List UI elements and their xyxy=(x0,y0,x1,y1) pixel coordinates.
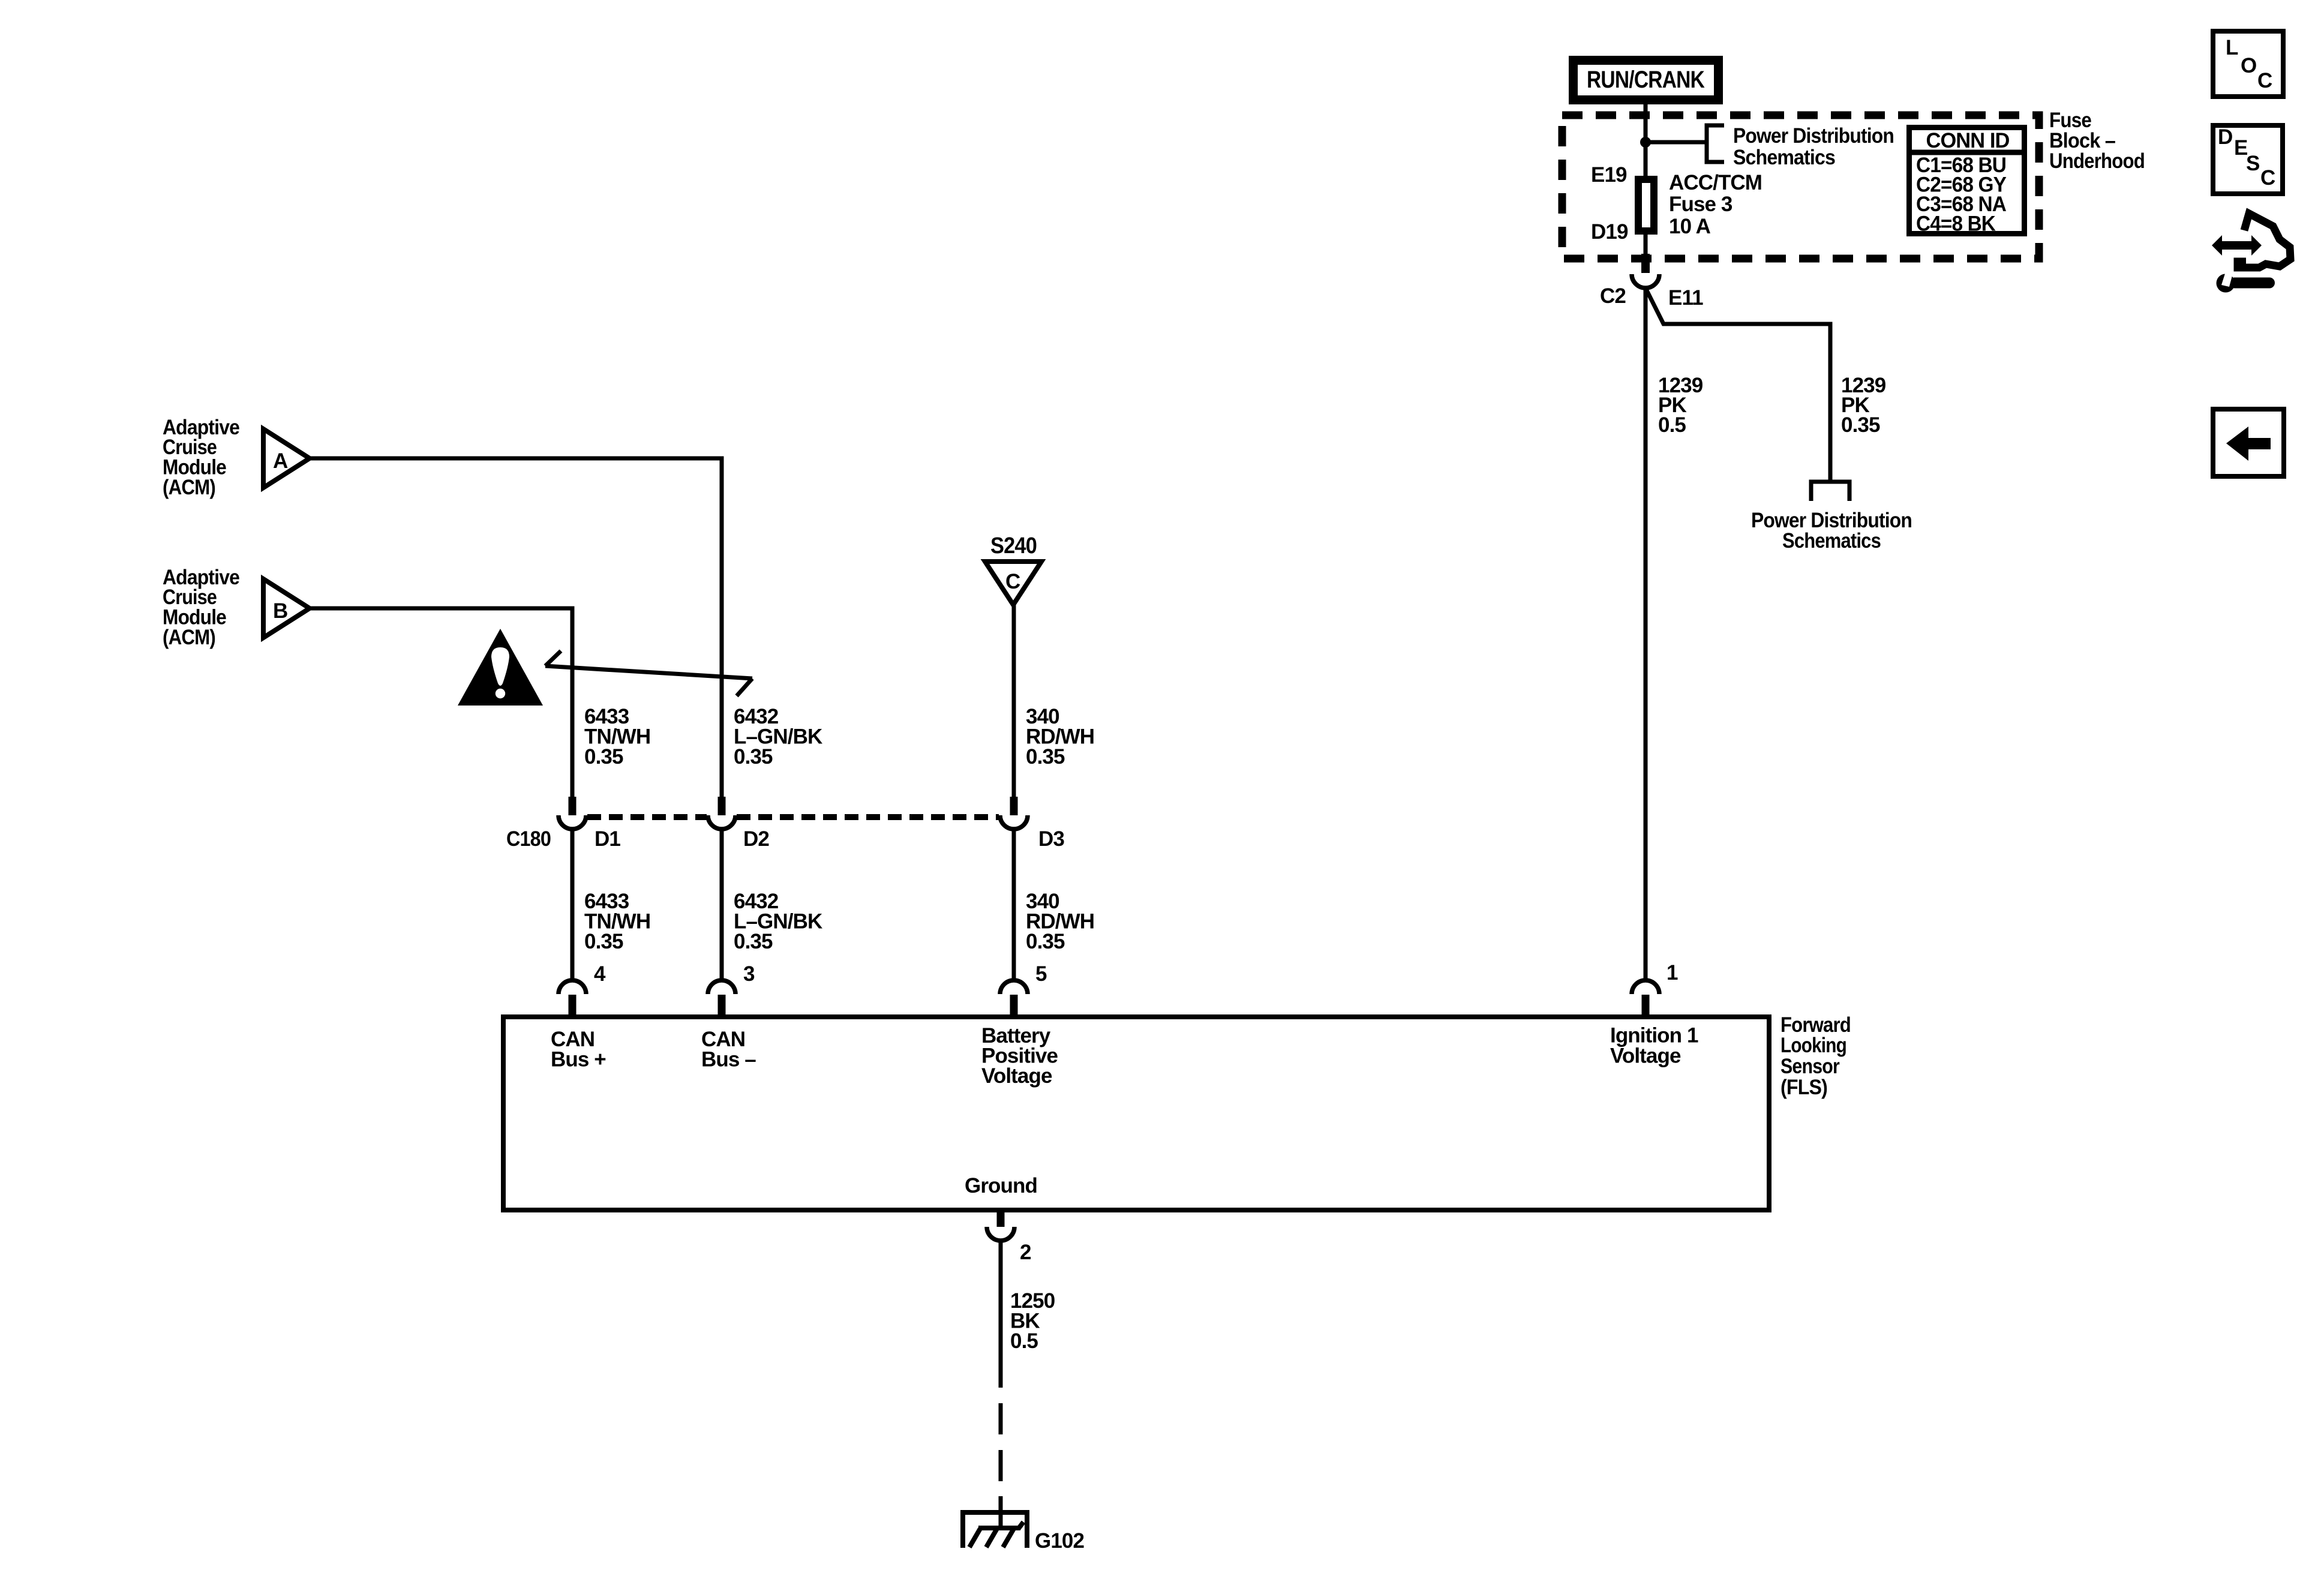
svg-text:D3: D3 xyxy=(1038,827,1064,851)
svg-text:S240: S240 xyxy=(990,533,1037,559)
svg-text:0.35: 0.35 xyxy=(1026,745,1065,769)
wire E11 branch (circuit 1239 PK 0.35) xyxy=(1646,288,1830,482)
node junction dot xyxy=(1640,137,1651,148)
connector C180 pin D1 xyxy=(559,797,586,829)
label circuit 6432 L-GN/BK 0.35 (below C180) xyxy=(734,890,822,953)
connector C180 pin D3 xyxy=(1000,797,1028,829)
icon check-vehicle (car outline with arrow and wrench) xyxy=(2212,214,2290,293)
module ACM B (Adaptive Cruise Module connector B triangle) xyxy=(263,579,310,638)
svg-text:1: 1 xyxy=(1667,961,1678,984)
wire C2 to pin 1 (circuit 1239 PK 0.5) xyxy=(1644,288,1648,980)
pin 4 connector at FLS xyxy=(559,962,606,1017)
svg-text:G102: G102 xyxy=(1035,1529,1084,1553)
svg-text:D1: D1 xyxy=(594,827,620,851)
pin 1 connector at FLS xyxy=(1632,961,1678,1017)
wire fuse to C2 xyxy=(1644,231,1648,255)
svg-text:C2: C2 xyxy=(1600,284,1626,308)
splice S240 triangle xyxy=(985,533,1041,605)
label ACM B text xyxy=(163,566,239,649)
svg-text:0.5: 0.5 xyxy=(1010,1329,1038,1353)
svg-text:Power Distribution: Power Distribution xyxy=(1733,124,1894,148)
svg-text:Bus –: Bus – xyxy=(701,1048,756,1071)
svg-text:CONN ID: CONN ID xyxy=(1926,129,2010,152)
CONN ID table xyxy=(1906,128,2027,236)
svg-text:Underhood: Underhood xyxy=(2049,149,2145,173)
wire B (circuit 6433 from ACM B to D1) xyxy=(310,608,572,798)
svg-text:C: C xyxy=(2257,69,2272,92)
svg-text:(ACM): (ACM) xyxy=(163,476,215,499)
svg-text:Sensor: Sensor xyxy=(1780,1055,1840,1078)
svg-text:0.35: 0.35 xyxy=(584,930,623,953)
pin 5 connector at FLS xyxy=(1000,962,1047,1017)
svg-text:C4=8 BK: C4=8 BK xyxy=(1916,212,1996,236)
svg-text:10 A: 10 A xyxy=(1669,215,1711,238)
label circuit 6432 L-GN/BK 0.35 (above C180) xyxy=(734,705,822,769)
svg-text:Schematics: Schematics xyxy=(1733,146,1835,169)
icon back-arrow box xyxy=(2213,409,2284,476)
label Forward Looking Sensor (FLS) xyxy=(1780,1013,1851,1099)
connector C2 (fuse block output) xyxy=(1600,254,1703,310)
svg-text:A: A xyxy=(273,449,288,473)
label CAN Bus - xyxy=(701,1028,756,1071)
wire D2 to pin 3 xyxy=(720,829,724,980)
svg-text:C: C xyxy=(1005,570,1020,593)
label ACC/TCM Fuse 3 10 A xyxy=(1669,171,1762,238)
FLS box (Forward Looking Sensor) xyxy=(503,1017,1769,1210)
svg-text:RUN/CRANK: RUN/CRANK xyxy=(1587,67,1705,93)
svg-text:0.35: 0.35 xyxy=(1841,413,1880,437)
svg-text:0.35: 0.35 xyxy=(1026,930,1065,953)
label Battery Positive Voltage xyxy=(981,1024,1058,1088)
svg-text:L: L xyxy=(2226,36,2238,59)
svg-text:O: O xyxy=(2241,54,2256,77)
fuse block underhood dashed box xyxy=(1562,115,2039,259)
label Ignition 1 Voltage xyxy=(1610,1024,1698,1068)
icon DESC box xyxy=(2213,125,2283,194)
bracket to Power Distribution Schematics (right) xyxy=(1811,482,1849,501)
label Fuse Block - Underhood xyxy=(2049,109,2145,173)
pin 3 connector at FLS xyxy=(708,962,755,1017)
svg-text:2: 2 xyxy=(1020,1241,1031,1264)
label Power Distribution Schematics (top) xyxy=(1733,124,1894,169)
svg-text:0.35: 0.35 xyxy=(584,745,623,769)
label circuit 340 RD/WH 0.35 (above C180) xyxy=(1026,705,1094,769)
svg-text:Voltage: Voltage xyxy=(981,1064,1052,1088)
svg-text:0.5: 0.5 xyxy=(1658,413,1686,437)
bracket to Power Distribution Schematics (top) xyxy=(1707,125,1724,162)
wire D1 to pin 4 xyxy=(571,829,575,980)
svg-text:C: C xyxy=(2260,166,2275,190)
label circuit 1250 BK 0.5 xyxy=(1010,1289,1055,1353)
svg-text:Schematics: Schematics xyxy=(1782,529,1881,553)
fuse ACC/TCM Fuse 3 10 A xyxy=(1638,179,1654,231)
svg-text:C180: C180 xyxy=(506,827,551,851)
svg-text:ACC/TCM: ACC/TCM xyxy=(1669,171,1762,194)
svg-text:D: D xyxy=(2218,125,2232,149)
svg-text:Looking: Looking xyxy=(1780,1034,1846,1057)
svg-text:Voltage: Voltage xyxy=(1610,1044,1681,1068)
wire RUN/CRANK into fuse block xyxy=(1644,104,1648,177)
svg-text:B: B xyxy=(273,599,287,623)
label circuit 340 RD/WH 0.35 (below C180) xyxy=(1026,890,1094,953)
dashed connector line D2-D3 xyxy=(737,814,999,820)
dashed wire segment to G102 xyxy=(999,1388,1003,1496)
module ACM A (Adaptive Cruise Module connector A triangle) xyxy=(263,429,310,488)
svg-text:0.35: 0.35 xyxy=(734,930,773,953)
warning symbol (black triangle with exclamation) xyxy=(458,629,543,706)
dashed connector line D1-D2 xyxy=(587,814,707,820)
svg-text:0.35: 0.35 xyxy=(734,745,773,769)
svg-text:S: S xyxy=(2246,152,2259,175)
wire junction to power distribution bracket xyxy=(1646,140,1707,145)
svg-text:D2: D2 xyxy=(743,827,769,851)
icon LOC box xyxy=(2213,31,2283,97)
pin 2 connector below FLS xyxy=(987,1211,1031,1264)
label circuit 6433 TN/WH 0.35 (above C180) xyxy=(584,705,650,769)
label circuit 6433 TN/WH 0.35 (below C180) xyxy=(584,890,650,953)
wire from S240 (circuit 340) to D3 xyxy=(1012,605,1016,798)
wire pin 2 to ground (circuit 1250) xyxy=(999,1241,1003,1388)
RUN/CRANK power feed box xyxy=(1574,61,1719,100)
svg-text:Bus +: Bus + xyxy=(551,1048,606,1071)
leader line from warning symbol to wires xyxy=(545,651,752,696)
svg-text:E11: E11 xyxy=(1668,286,1703,310)
label Power Distribution Schematics (bottom right) xyxy=(1751,509,1912,553)
svg-text:5: 5 xyxy=(1035,962,1047,986)
label ACM A text xyxy=(163,416,239,499)
svg-text:(ACM): (ACM) xyxy=(163,626,215,649)
wire into ground symbol xyxy=(999,1496,1003,1528)
svg-text:4: 4 xyxy=(594,962,606,986)
wire A (circuit 6432 from ACM A to D2) xyxy=(310,458,722,798)
svg-text:Fuse 3: Fuse 3 xyxy=(1669,193,1733,216)
label circuit 1239 PK 0.5 xyxy=(1658,374,1703,437)
label CAN Bus + xyxy=(551,1028,606,1071)
svg-text:(FLS): (FLS) xyxy=(1780,1076,1827,1099)
svg-text:Ground: Ground xyxy=(965,1174,1037,1197)
connector C180 pin D2 xyxy=(708,797,735,829)
wire D3 to pin 5 xyxy=(1012,829,1016,980)
label circuit 1239 PK 0.35 xyxy=(1841,374,1886,437)
svg-text:E19: E19 xyxy=(1591,163,1627,187)
svg-text:3: 3 xyxy=(743,962,755,986)
ground G102 symbol xyxy=(963,1512,1027,1548)
svg-text:D19: D19 xyxy=(1591,220,1628,244)
